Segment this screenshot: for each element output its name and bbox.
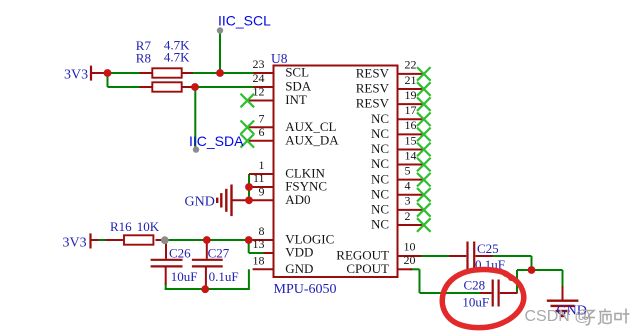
wire CPOUT bottom run to C28 [420,292,483,294]
wire GND pin 18 corner down [248,269,250,290]
svg-text:22: 22 [405,58,417,72]
svg-text:MPU-6050: MPU-6050 [274,282,337,297]
svg-text:IIC_SDA: IIC_SDA [189,133,244,149]
pin 4 NC (right) with no-ERC cross [371,179,431,202]
svg-text:NC: NC [371,126,389,141]
svg-text:C27: C27 [208,246,230,261]
svg-text:RESV: RESV [356,96,390,111]
resistor R8 4.7K [140,82,193,91]
svg-text:15: 15 [405,133,417,147]
pin 11 FSYNC (left) [249,171,327,194]
svg-text:2: 2 [405,209,411,223]
svg-text:CSDN @: CSDN @ [525,308,591,325]
pin 9 AD0 (left) [249,184,310,207]
svg-text:19: 19 [405,88,417,102]
wire C26 foot [165,283,167,290]
svg-text:1: 1 [259,158,265,172]
svg-text:GND: GND [285,261,313,276]
svg-text:VDD: VDD [285,245,313,260]
node R16/C26 attach (gray) [161,236,169,244]
junction FSYNC tie [245,183,253,191]
wire vertical 3V3 branch to R8 row [107,72,109,87]
pin 1 CLKIN (left) [249,158,326,181]
junction pin8 / VDD branch [245,236,253,244]
svg-text:RESV: RESV [356,66,390,81]
junction 3V3/R7/R8 [104,69,112,77]
op IC U8 MPU-6050 body [274,66,398,278]
resistor R7 4.7K [140,68,194,77]
pin 19 RESV (right) with no-ERC cross [356,88,431,111]
svg-text:11: 11 [253,171,265,185]
svg-text:12: 12 [253,85,265,99]
node IIC_SDA label attach (gray) [193,146,199,152]
wire junction left to C28 branch [517,269,532,271]
pin 3 NC (right) with no-ERC cross [371,194,431,217]
svg-text:18: 18 [253,253,265,267]
pin 22 RESV (right) with no-ERC cross [356,58,431,81]
pin 23 SCL (left) [253,57,310,80]
svg-text:CPOUT: CPOUT [346,261,389,276]
svg-text:NC: NC [371,186,389,201]
svg-text:7: 7 [259,111,265,125]
pin 7 AUX_CL (left) [241,111,337,134]
svg-text:21: 21 [405,73,417,87]
svg-text:NC: NC [371,141,389,156]
pin 16 NC (right) with no-ERC cross [371,118,431,141]
ground GND (AD0 group, sideways) [185,185,251,217]
svg-text:4.7K: 4.7K [164,50,190,65]
svg-text:NC: NC [371,156,389,171]
svg-text:C25: C25 [477,241,499,256]
svg-text:NC: NC [371,171,389,186]
pin 21 RESV (right) with no-ERC cross [356,73,431,96]
wire cap bottom rail [165,288,249,290]
svg-text:C28: C28 [464,277,486,292]
svg-text:3V3: 3V3 [63,236,87,251]
svg-text:10K: 10K [137,219,160,234]
svg-text:R8: R8 [136,50,151,65]
svg-text:IIC_SCL: IIC_SCL [218,12,271,28]
pin 20 CPOUT (right) [346,253,415,276]
svg-text:23: 23 [253,57,265,71]
wire junction right toward GND [532,269,563,271]
wire 3V3 to R7/R8 row (net SCL) [108,72,257,74]
pin 2 NC (right) with no-ERC cross [371,209,431,232]
svg-text:24: 24 [253,71,265,85]
pin 12 INT (left) [241,85,307,108]
power port 3V3 (R16) [63,233,100,250]
svg-text:RESV: RESV [356,81,390,96]
pin 10 REGOUT (right) [336,240,421,263]
capacitor C27 0.1uF [192,240,223,287]
svg-text:GND: GND [185,195,215,210]
wire REGOUT pin 10 to C25 [418,255,450,257]
svg-text:AUX_DA: AUX_DA [285,132,339,147]
node IIC_SCL label attach (gray) [217,27,223,33]
wire CPOUT pin 20 [410,268,420,270]
annotation hand-drawn red circle around C28 [442,270,524,328]
junction SDA wire / IIC_SDA [191,83,199,91]
pin 24 SDA (left) [253,71,312,94]
svg-text:16: 16 [405,118,417,132]
wire C28 branch vertical [516,270,518,293]
svg-text:10uF: 10uF [171,269,198,284]
junction SCL wire / IIC_SCL [216,69,224,77]
wire corner down to junction [531,256,533,270]
junction C27 top [203,236,211,244]
pin 6 AUX_DA (left) [241,125,340,148]
svg-text:17: 17 [405,103,417,117]
wire CLKIN/FSYNC/AD0 tie vertical [248,174,250,200]
svg-text:10: 10 [404,240,416,254]
capacitor C26 10uF [151,240,183,285]
wire IIC_SDA drop from SDA row [194,87,196,150]
power port 3V3 (top, SCL/SDA pull-ups) [64,66,108,83]
watermark CSDN @子疯叶 [525,308,630,325]
pin 18 GND (left) [253,253,314,276]
wire VDD branch horizontal to pin 13 [249,252,266,254]
svg-text:5: 5 [405,163,411,177]
svg-text:R16: R16 [110,219,132,234]
svg-text:3: 3 [405,194,411,208]
svg-text:6: 6 [259,125,265,139]
pin 14 NC (right) with no-ERC cross [371,148,431,171]
svg-text:SCL: SCL [285,65,309,80]
pin 8 VLOGIC (left) [253,224,334,247]
junction C25/C28/GND node [528,266,536,274]
svg-text:AD0: AD0 [285,192,310,207]
wire C25 right to corner [492,255,532,257]
wire R16 to VLOGIC pin 8 row [165,239,255,241]
svg-text:INT: INT [285,92,307,107]
wire 3V3 to R16 [97,239,112,241]
ground GND (bottom right) [547,286,587,318]
svg-text:C26: C26 [169,246,191,261]
svg-text:NC: NC [371,201,389,216]
junction AD0 / GND [245,196,253,204]
svg-text:13: 13 [253,237,265,251]
svg-text:10uF: 10uF [462,294,489,309]
svg-text:NC: NC [371,111,389,126]
svg-text:20: 20 [404,253,416,267]
svg-text:9: 9 [259,184,265,198]
wire CPOUT corner down [419,269,421,293]
svg-text:3V3: 3V3 [64,67,88,82]
capacitor C25 0.1uF [449,242,493,270]
wire VDD branch vertical [248,240,250,253]
wire R8 row (net SDA) [108,86,257,88]
wire IIC_SCL drop to SCL row [219,31,221,73]
svg-text:4: 4 [405,179,411,193]
svg-text:0.1uF: 0.1uF [209,269,239,284]
svg-text:NC: NC [371,217,389,232]
pin 5 NC (right) with no-ERC cross [371,163,431,186]
pin 17 NC (right) with no-ERC cross [371,103,431,126]
resistor R16 10K [105,235,165,244]
svg-text:14: 14 [405,148,417,162]
capacitor C28 10uF [480,280,518,307]
wire GND drop [562,270,564,287]
pin 13 VDD (left) [253,237,314,260]
pin 15 NC (right) with no-ERC cross [371,133,431,156]
svg-text:8: 8 [259,224,265,238]
junction C27 bottom rail [201,285,209,293]
